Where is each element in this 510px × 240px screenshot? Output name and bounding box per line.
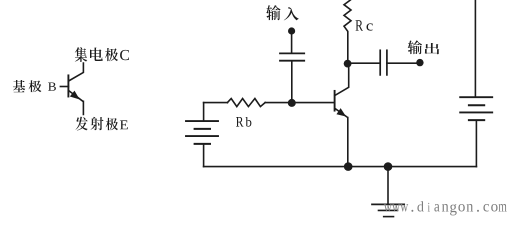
wire input stem	[291, 34, 293, 52]
wire collector to C2	[348, 62, 381, 64]
wire C2 to output	[387, 62, 417, 64]
node ground junction	[384, 162, 393, 171]
battery B1 (left bias battery)	[186, 103, 218, 167]
node collector junction	[344, 60, 352, 68]
label base 基极B	[13, 80, 56, 92]
output terminal dot	[416, 59, 423, 66]
capacitor C2 (output coupling)	[380, 50, 387, 75]
ground	[372, 167, 404, 217]
wire C1 to base node	[291, 62, 293, 103]
label Rb	[236, 117, 251, 127]
battery B2 (right supply battery)	[460, 0, 492, 167]
capacitor C1 (input coupling)	[280, 53, 304, 60]
label Rc	[355, 20, 372, 30]
transistor symbol (left, standalone NPN)	[60, 63, 83, 114]
label 输出 (output)	[408, 40, 440, 54]
label emitter 发射极E	[75, 117, 127, 131]
resistor Rb	[227, 99, 265, 107]
node base junction	[288, 99, 296, 107]
wire battery to Rb	[204, 102, 228, 104]
node emitter junction	[344, 162, 353, 171]
input terminal dot	[288, 27, 295, 34]
transistor Q1	[335, 64, 349, 167]
resistor Rc	[344, 0, 351, 63]
label 输入 (input)	[266, 5, 299, 20]
watermark www.diangon.com	[384, 201, 507, 215]
wire bottom rail	[204, 166, 477, 168]
label collector 集电极C	[75, 47, 129, 62]
wire Rb to base	[265, 102, 334, 104]
